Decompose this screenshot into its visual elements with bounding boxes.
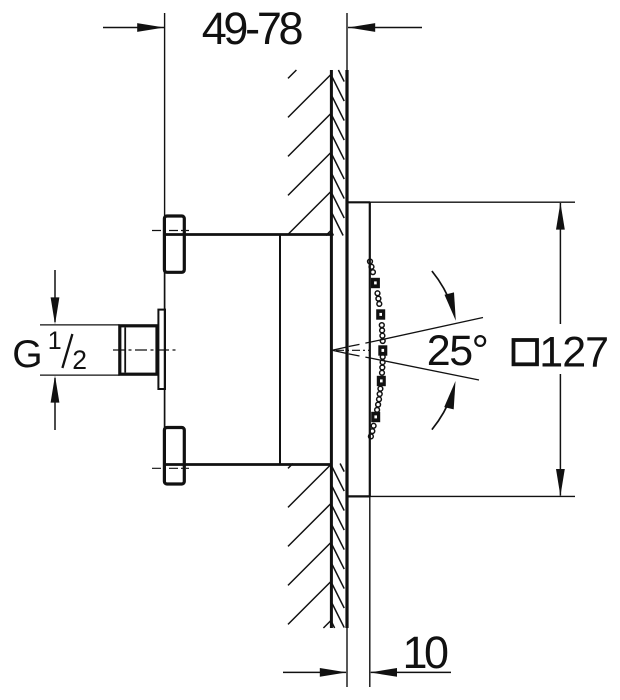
svg-text:G: G: [12, 333, 42, 376]
svg-text:49-78: 49-78: [202, 3, 303, 54]
svg-text:2: 2: [72, 345, 87, 375]
svg-text:127: 127: [539, 328, 608, 376]
svg-text:1: 1: [48, 327, 62, 355]
svg-text:10: 10: [403, 627, 449, 678]
svg-text:25°: 25°: [427, 327, 488, 375]
